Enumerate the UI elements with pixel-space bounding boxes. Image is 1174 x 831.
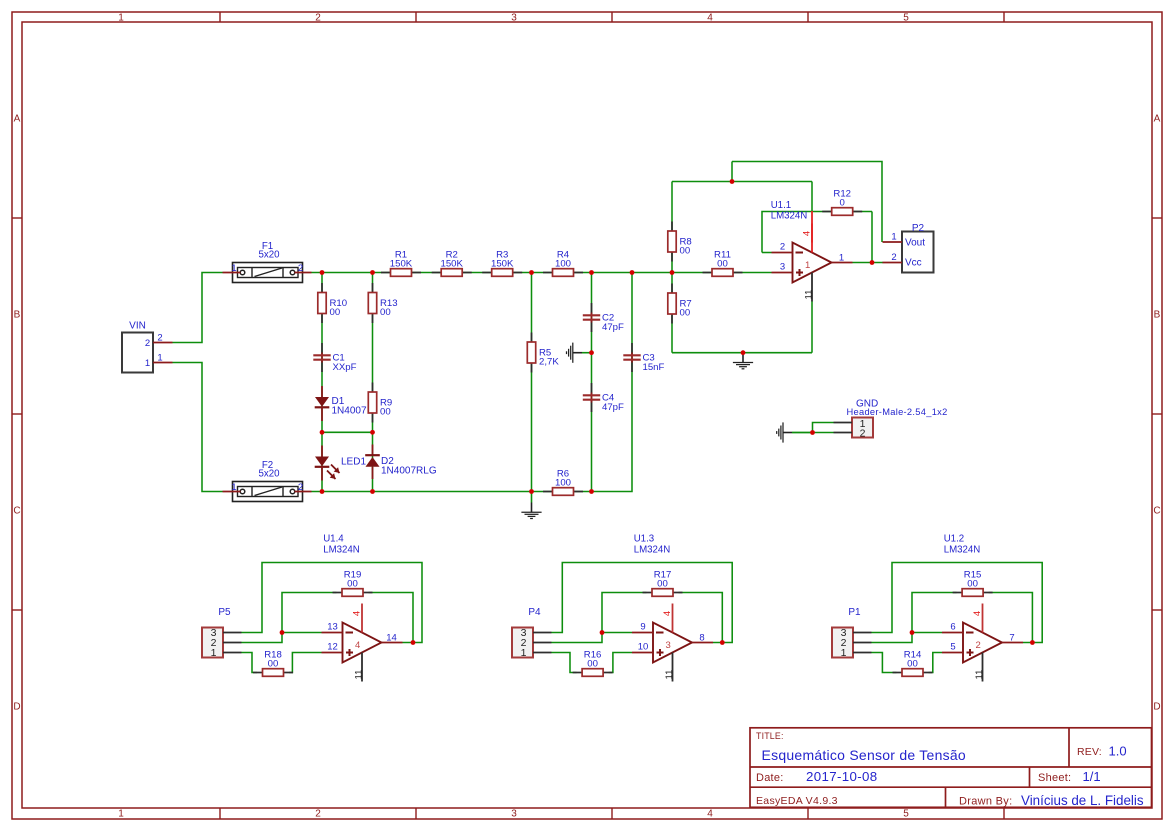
svg-text:P1: P1 [848, 607, 861, 618]
svg-text:00: 00 [330, 307, 341, 318]
svg-text:1.0: 1.0 [1109, 744, 1127, 759]
svg-text:Sheet:: Sheet: [1038, 772, 1071, 784]
svg-text:1: 1 [157, 353, 162, 364]
svg-text:1: 1 [839, 253, 844, 264]
svg-text:5: 5 [950, 642, 955, 653]
svg-text:1: 1 [805, 260, 810, 271]
svg-text:0: 0 [840, 197, 845, 208]
svg-text:150K: 150K [440, 258, 463, 269]
svg-text:3: 3 [511, 809, 517, 820]
svg-text:Esquemático Sensor de Tensão: Esquemático Sensor de Tensão [762, 747, 966, 763]
svg-text:150K: 150K [491, 258, 514, 269]
svg-text:47pF: 47pF [602, 322, 624, 333]
svg-text:12: 12 [327, 642, 338, 653]
svg-text:U1.2: U1.2 [944, 534, 964, 545]
svg-text:Vinícius de L. Fidelis: Vinícius de L. Fidelis [1021, 793, 1144, 808]
svg-text:100: 100 [555, 477, 571, 488]
svg-text:4: 4 [355, 640, 360, 651]
svg-text:LM324N: LM324N [944, 545, 981, 556]
svg-text:Header-Male-2.54_1x2: Header-Male-2.54_1x2 [847, 407, 948, 417]
svg-text:15nF: 15nF [643, 362, 665, 373]
svg-text:4: 4 [707, 809, 713, 820]
svg-text:2: 2 [315, 809, 321, 820]
svg-text:D: D [1153, 702, 1160, 713]
svg-text:1N4007: 1N4007 [332, 406, 367, 417]
svg-text:C: C [1153, 506, 1160, 517]
svg-text:P5: P5 [218, 607, 231, 618]
svg-text:U1.3: U1.3 [634, 534, 654, 545]
svg-text:2: 2 [891, 252, 896, 263]
svg-text:1: 1 [118, 13, 124, 24]
svg-text:P2: P2 [912, 223, 925, 234]
svg-text:5x20: 5x20 [258, 250, 280, 261]
svg-text:VIN: VIN [129, 321, 146, 332]
svg-text:11: 11 [354, 670, 365, 680]
svg-text:4: 4 [972, 611, 983, 616]
svg-text:D: D [13, 702, 20, 713]
svg-text:5: 5 [903, 809, 909, 820]
svg-text:B: B [1154, 310, 1161, 321]
svg-text:8: 8 [699, 633, 704, 644]
svg-text:4: 4 [352, 611, 363, 616]
svg-text:2017-10-08: 2017-10-08 [806, 769, 878, 784]
svg-text:6: 6 [950, 622, 955, 633]
svg-text:LED1: LED1 [341, 457, 366, 468]
svg-text:A: A [1154, 114, 1161, 125]
svg-text:1: 1 [118, 809, 124, 820]
svg-text:00: 00 [907, 658, 918, 669]
svg-text:1: 1 [841, 647, 847, 659]
svg-text:C: C [13, 506, 20, 517]
svg-text:11: 11 [804, 290, 815, 300]
svg-text:1: 1 [521, 647, 527, 659]
svg-text:00: 00 [967, 578, 978, 589]
svg-text:00: 00 [380, 307, 391, 318]
svg-text:11: 11 [664, 670, 675, 680]
svg-text:U1.1: U1.1 [771, 200, 791, 211]
svg-text:1N4007RLG: 1N4007RLG [381, 466, 437, 477]
svg-text:4: 4 [707, 13, 713, 24]
svg-text:00: 00 [347, 578, 358, 589]
svg-text:13: 13 [327, 622, 338, 633]
svg-text:LM324N: LM324N [323, 545, 360, 556]
svg-text:EasyEDA V4.9.3: EasyEDA V4.9.3 [756, 795, 838, 807]
svg-text:1: 1 [211, 647, 217, 659]
svg-text:2: 2 [157, 333, 162, 344]
svg-text:Vcc: Vcc [905, 258, 922, 269]
svg-text:2: 2 [298, 482, 303, 493]
svg-text:1: 1 [891, 232, 896, 243]
svg-text:REV:: REV: [1077, 746, 1102, 758]
svg-text:A: A [14, 114, 21, 125]
svg-text:2: 2 [860, 428, 866, 440]
svg-text:4: 4 [802, 231, 813, 236]
svg-text:1/1: 1/1 [1083, 769, 1101, 784]
svg-text:150K: 150K [390, 258, 413, 269]
svg-text:LM324N: LM324N [771, 211, 808, 222]
svg-text:Vout: Vout [905, 238, 925, 249]
svg-text:2: 2 [780, 242, 785, 253]
svg-text:10: 10 [638, 642, 649, 653]
svg-text:2,7K: 2,7K [539, 357, 559, 368]
svg-text:2: 2 [976, 640, 981, 651]
svg-text:47pF: 47pF [602, 402, 624, 413]
svg-text:3: 3 [666, 640, 671, 651]
svg-text:XXpF: XXpF [333, 362, 357, 373]
svg-text:100: 100 [555, 258, 571, 269]
svg-text:4: 4 [662, 611, 673, 616]
svg-text:1: 1 [231, 263, 236, 274]
svg-text:3: 3 [511, 13, 517, 24]
svg-text:00: 00 [268, 658, 279, 669]
svg-text:14: 14 [386, 633, 397, 644]
svg-text:00: 00 [680, 246, 691, 257]
svg-text:TITLE:: TITLE: [756, 731, 784, 741]
svg-text:5: 5 [903, 13, 909, 24]
svg-text:00: 00 [587, 658, 598, 669]
svg-text:2: 2 [145, 338, 150, 349]
svg-text:11: 11 [974, 670, 985, 680]
svg-text:9: 9 [640, 622, 645, 633]
svg-text:00: 00 [680, 308, 691, 319]
svg-text:00: 00 [717, 258, 728, 269]
svg-text:1: 1 [145, 358, 150, 369]
svg-text:5x20: 5x20 [258, 469, 280, 480]
svg-text:1: 1 [231, 482, 236, 493]
svg-text:2: 2 [315, 13, 321, 24]
svg-text:U1.4: U1.4 [323, 534, 344, 545]
svg-text:P4: P4 [528, 607, 541, 618]
svg-text:7: 7 [1009, 633, 1014, 644]
svg-text:3: 3 [780, 262, 785, 273]
svg-text:2: 2 [298, 263, 303, 274]
svg-text:00: 00 [380, 407, 391, 418]
svg-text:Date:: Date: [756, 772, 784, 784]
svg-text:Drawn By:: Drawn By: [959, 796, 1012, 808]
svg-text:B: B [14, 310, 21, 321]
svg-text:00: 00 [657, 578, 668, 589]
svg-text:LM324N: LM324N [634, 545, 671, 556]
